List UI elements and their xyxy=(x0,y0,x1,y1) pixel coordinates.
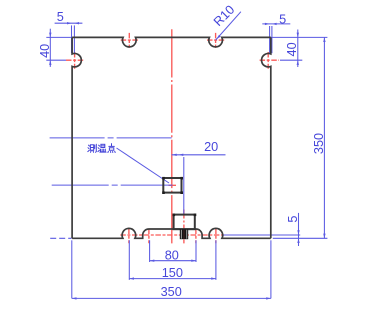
svg-text:80: 80 xyxy=(165,248,179,262)
svg-text:5: 5 xyxy=(57,10,64,24)
svg-text:40: 40 xyxy=(38,44,52,58)
svg-text:150: 150 xyxy=(162,266,183,280)
svg-text:5: 5 xyxy=(286,216,300,223)
svg-text:20: 20 xyxy=(204,140,218,154)
svg-text:350: 350 xyxy=(312,133,326,154)
svg-text:5: 5 xyxy=(279,12,286,26)
svg-text:350: 350 xyxy=(161,285,182,299)
svg-text:40: 40 xyxy=(285,42,299,56)
